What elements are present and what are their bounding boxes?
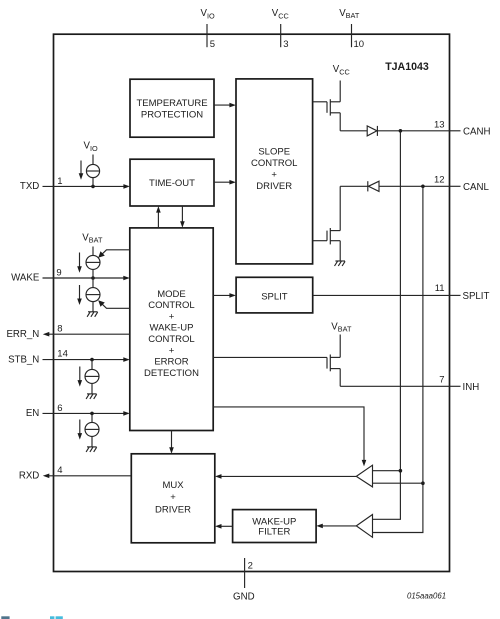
junction WAKE / current sources [91,276,95,280]
svg-text:TIME-OUT: TIME-OUT [149,178,195,189]
svg-text:ERR_N: ERR_N [6,329,39,340]
svg-text:WAKE: WAKE [11,273,40,284]
svg-text:VBAT: VBAT [331,321,352,333]
block MODE CONTROL + WAKE-UP CONTROL + ERROR DETECTION [130,228,213,431]
current direction arrow below STB_N [78,367,83,387]
svg-text:TXD: TXD [20,181,39,192]
svg-text:DRIVER: DRIVER [256,181,292,192]
arrow into SPLIT block [229,293,236,298]
block MUX + DRIVER [131,454,215,543]
svg-text:TEMPERATURE: TEMPERATURE [136,98,207,109]
pin 12 stub CANL [450,185,461,187]
ground at CANL driver source [335,261,346,266]
current source at TXD (VIO pull-up) [86,155,99,187]
current direction arrow at TXD source [79,161,84,180]
wire CANL driver to diode [340,185,367,187]
current source below EN [85,413,99,447]
svg-text:CANH: CANH [463,126,490,137]
outer border of TJA1043 [54,34,450,571]
wire wake receiver to WAKE-UP FILTER [322,525,357,527]
wire MODE to MUX [171,431,173,449]
wire TEMPERATURE PROTECTION to SLOPE [214,104,230,106]
svg-text:SPLIT: SPLIT [463,291,490,302]
wire INH driver to INH pin [340,385,449,387]
svg-text:STB_N: STB_N [8,354,39,365]
bus CANL to receivers [373,186,423,532]
wire MODE to INH gate [213,356,327,358]
block WAKE-UP FILTER [233,510,317,543]
wire diode to CANL pin [379,185,450,187]
svg-text:EN: EN [26,408,39,419]
wire diode to CANH pin [377,130,449,132]
svg-text:015aaa061: 015aaa061 [407,591,446,600]
svg-text:CONTROL: CONTROL [148,300,194,311]
arrow into TIME-OUT [123,184,129,189]
svg-text:VCC: VCC [333,64,350,76]
svg-text:11: 11 [435,283,445,294]
svg-text:7: 7 [439,374,444,385]
wire receiver to MUX [221,475,357,477]
svg-text:5: 5 [210,39,215,50]
svg-text:GND: GND [233,592,255,603]
svg-text:RXD: RXD [19,471,39,482]
wire CANH driver to diode [340,130,367,132]
current source below STB_N [85,360,99,394]
diode CANL [368,181,379,191]
svg-text:8: 8 [57,323,62,334]
transistor CANL driver [313,186,341,261]
svg-text:10: 10 [354,39,365,50]
current direction arrow above WAKE [77,253,82,273]
wire SPLIT block to SPLIT pin [313,294,450,296]
svg-text:+: + [169,311,175,322]
svg-text:2: 2 [248,561,253,572]
arrow into MUX right [215,474,222,479]
pin 7 stub INH [450,385,461,387]
wire TXD to TIME-OUT [43,185,125,187]
arrow into MODE (wake) [123,276,130,281]
transistor CANH driver [313,81,341,131]
wire receiver input upper [373,470,401,472]
junction CANL / receiver bus [421,185,425,189]
pin 11 stub SPLIT [450,294,461,296]
wire STB_N to MODE [43,359,125,361]
junction receiver lower / CANL bus [421,481,425,485]
svg-text:VCC: VCC [272,8,289,20]
arrow into SLOPE (temp) [229,103,236,108]
wire WAKE to MODE [43,277,125,279]
junction receiver upper / CANH bus [399,469,403,473]
pin 5 stub (VIO supply) [206,24,208,47]
svg-text:MODE: MODE [157,289,186,300]
junction CANH / receiver bus [399,129,403,133]
svg-text:14: 14 [57,348,68,359]
ground below STB_N current source [86,394,97,399]
svg-text:MUX: MUX [162,480,184,491]
wire WAKE-UP FILTER to MUX [220,525,232,527]
pin 13 stub CANH [450,130,461,132]
receiver CAN (triangle) [356,465,372,487]
junction STB_N / pull source [90,358,94,362]
arrow into MUX top [169,447,174,454]
wire EN to MODE [43,412,125,414]
svg-text:+: + [271,170,277,181]
pin 2 stub GND [244,558,246,588]
svg-text:1: 1 [57,176,62,187]
ground below wake current source [87,312,98,317]
wire MODE to SPLIT block [213,294,230,296]
junction EN / pull source [90,412,94,416]
pin 10 stub (VBAT supply) [351,24,353,47]
svg-text:VIO: VIO [201,8,215,20]
svg-text:VBAT: VBAT [339,8,360,20]
svg-text:WAKE-UP: WAKE-UP [150,323,194,334]
block SLOPE CONTROL + DRIVER [236,79,313,264]
arrow out ERR_N [43,332,50,337]
wire TIME-OUT to MODE (down) [181,206,183,223]
wire receiver input lower [373,482,423,484]
svg-text:CONTROL: CONTROL [148,334,194,345]
wire TIME-OUT to SLOPE [214,181,230,183]
arrow into MODE (en) [123,411,130,416]
block TEMPERATURE PROTECTION [130,79,214,137]
wake receiver (triangle) [356,515,372,538]
arrow down into MODE [180,221,185,228]
arrow into WAKE-UP FILTER [316,524,323,529]
svg-text:3: 3 [283,39,288,50]
svg-text:CANL: CANL [463,182,489,193]
ground below EN current source [86,447,97,452]
wire MODE to receiver enable [213,407,364,461]
control wire MODE to upper wake source [98,250,130,258]
svg-text:SPLIT: SPLIT [261,292,288,303]
svg-text:+: + [169,345,175,356]
current direction arrow below EN [78,420,83,440]
svg-text:13: 13 [434,119,445,130]
svg-text:VIO: VIO [84,141,98,153]
svg-text:CONTROL: CONTROL [251,158,297,169]
block TIME-OUT [130,159,214,206]
svg-text:6: 6 [57,403,62,414]
svg-text:SLOPE: SLOPE [258,147,290,158]
arrow into MUX (filter) [215,524,222,529]
arrow into SLOPE (time-out) [229,180,236,185]
arrow up into TIME-OUT [156,206,161,213]
wire MUX to RXD [48,475,132,477]
block SPLIT [236,277,313,313]
wire MODE to TIME-OUT (up) [157,212,159,228]
control wire MODE to lower wake source [98,300,130,308]
svg-text:4: 4 [57,465,62,476]
bus CANH to receivers [373,131,401,520]
svg-text:9: 9 [56,268,61,279]
svg-text:TJA1043: TJA1043 [385,61,429,73]
arrow into MODE (stb) [123,357,130,362]
svg-text:PROTECTION: PROTECTION [141,109,203,120]
current source above WAKE (VBAT) [86,247,100,279]
pin 3 stub (VCC supply) [280,24,282,47]
svg-text:12: 12 [434,174,445,185]
svg-text:INH: INH [463,382,480,393]
current direction arrow below WAKE [77,285,82,305]
transistor INH driver [327,335,340,387]
svg-text:DRIVER: DRIVER [155,504,191,515]
svg-text:FILTER: FILTER [258,526,290,537]
arrow out RXD [43,474,50,479]
svg-text:+: + [170,492,176,503]
wire MODE to ERR_N [48,333,130,335]
svg-text:VBAT: VBAT [82,232,103,244]
arrow into receiver [362,460,367,467]
diode CANH [367,126,377,136]
svg-text:DETECTION: DETECTION [144,368,199,379]
current source below WAKE [86,278,100,312]
junction TXD / pull-up [91,185,95,189]
svg-text:ERROR: ERROR [154,357,188,368]
caption artifact marks bottom left [1,616,63,619]
